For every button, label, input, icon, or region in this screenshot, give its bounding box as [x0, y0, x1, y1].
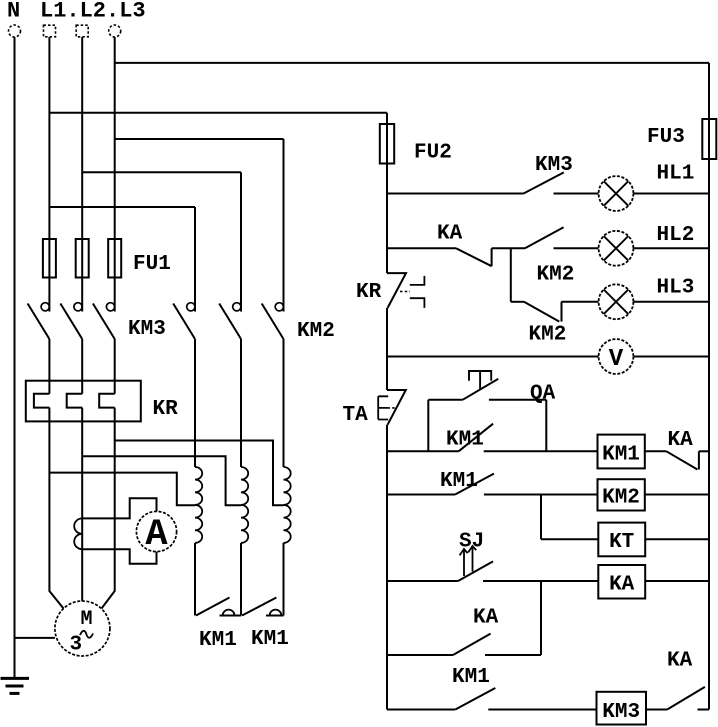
svg-text:KM1: KM1	[251, 628, 289, 651]
svg-text:KR: KR	[356, 281, 382, 304]
svg-text:N: N	[7, 0, 20, 24]
svg-text:KA: KA	[437, 223, 463, 246]
svg-text:KM1: KM1	[602, 444, 640, 467]
svg-text:KM2: KM2	[537, 264, 575, 287]
svg-text:KM1: KM1	[440, 470, 478, 493]
svg-text:KR: KR	[153, 398, 179, 421]
svg-text:KM1: KM1	[199, 629, 237, 652]
svg-text:TA: TA	[343, 404, 369, 427]
svg-text:FU3: FU3	[647, 126, 685, 149]
svg-text:KA: KA	[473, 607, 499, 630]
svg-text:KA: KA	[609, 574, 635, 597]
svg-text:KM3: KM3	[535, 154, 573, 177]
svg-text:M: M	[81, 608, 93, 631]
svg-text:KM3: KM3	[128, 318, 166, 341]
svg-text:FU2: FU2	[414, 142, 452, 165]
svg-text:KA: KA	[667, 650, 693, 673]
svg-text:KM2: KM2	[602, 487, 640, 510]
svg-text:3: 3	[70, 634, 83, 657]
svg-text:HL1: HL1	[657, 163, 695, 186]
svg-text:SJ: SJ	[459, 531, 484, 554]
svg-text:KM3: KM3	[602, 701, 640, 724]
svg-text:KM1: KM1	[446, 429, 484, 452]
svg-text:KM2: KM2	[297, 320, 335, 343]
svg-text:L1.L2.L3: L1.L2.L3	[40, 0, 146, 24]
svg-text:KM2: KM2	[529, 324, 567, 347]
svg-text:KM1: KM1	[452, 666, 490, 689]
svg-text:HL2: HL2	[657, 224, 695, 247]
svg-text:HL3: HL3	[657, 277, 695, 300]
svg-text:V: V	[609, 346, 624, 373]
svg-text:QA: QA	[530, 383, 556, 406]
svg-text:FU1: FU1	[133, 253, 171, 276]
svg-text:KT: KT	[609, 531, 634, 554]
svg-text:A: A	[145, 514, 168, 556]
svg-text:KA: KA	[668, 429, 694, 452]
